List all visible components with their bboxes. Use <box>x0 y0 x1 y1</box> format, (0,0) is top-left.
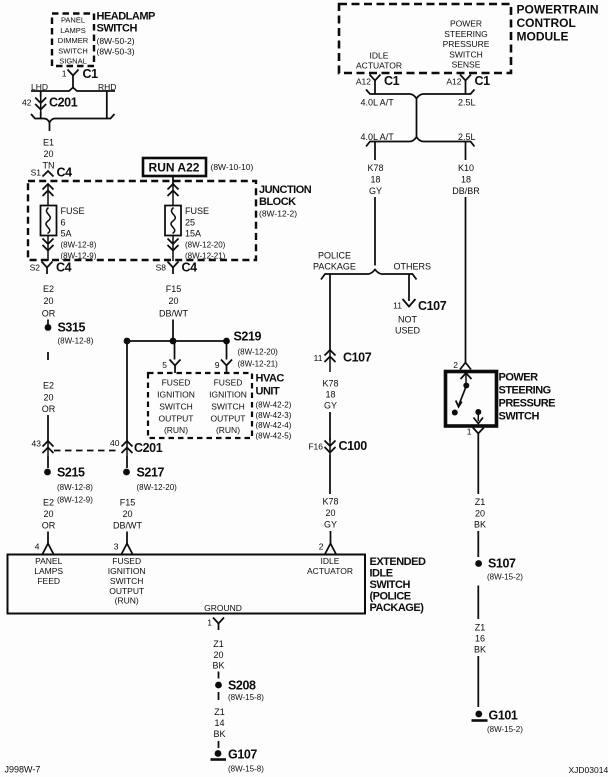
junction dot left <box>124 338 131 345</box>
connector C4 (S1) <box>43 171 54 177</box>
splice S219 <box>223 330 278 369</box>
svg-text:NOT: NOT <box>398 315 418 325</box>
svg-text:20: 20 <box>213 650 223 660</box>
svg-text:POLICE: POLICE <box>318 251 351 261</box>
connector C107 (others, not used) arrow <box>393 299 447 313</box>
svg-text:42: 42 <box>22 98 32 108</box>
fuse 25 <box>165 206 181 236</box>
wire right branch stub <box>465 142 467 161</box>
PCM power steering pressure switch sense label <box>443 19 490 70</box>
svg-text:F16: F16 <box>308 442 323 452</box>
svg-text:C107: C107 <box>418 299 447 313</box>
wire K10 down to PSP switch <box>465 197 467 362</box>
svg-text:PRESSURE: PRESSURE <box>499 398 556 410</box>
wire RUN A22 to fuse 25 <box>172 176 174 184</box>
headlamp switch title <box>97 11 155 57</box>
svg-text:20: 20 <box>43 296 53 306</box>
label fused ignition switch output run <box>108 556 146 606</box>
wire merged center <box>416 99 418 138</box>
PSP inner entry chevron <box>461 373 472 379</box>
terminal into box pin 3 <box>122 544 133 555</box>
svg-text:SWITCH: SWITCH <box>58 46 88 55</box>
wire GY to C100 <box>329 412 331 441</box>
svg-text:EXTENDED: EXTENDED <box>370 556 426 568</box>
svg-text:1: 1 <box>207 618 212 628</box>
wire below S107 <box>477 586 479 620</box>
wire Z1 14 BK label <box>213 707 225 739</box>
svg-text:DIMMER: DIMMER <box>58 36 89 45</box>
svg-text:DB/WT: DB/WT <box>159 309 188 319</box>
junction block title <box>259 184 312 219</box>
svg-text:(8W-15-2): (8W-15-2) <box>487 725 523 734</box>
terminal into box pin 4 <box>43 544 54 555</box>
svg-text:(8W-15-2): (8W-15-2) <box>487 573 523 582</box>
wire police branch <box>329 274 331 350</box>
svg-text:DB/WT: DB/WT <box>113 521 142 531</box>
svg-text:GY: GY <box>324 520 337 530</box>
fuse 25 value label <box>185 206 226 261</box>
connector C4 (S8) <box>168 261 198 275</box>
svg-text:25: 25 <box>185 218 195 228</box>
splice S107 <box>475 557 523 582</box>
svg-text:20: 20 <box>43 509 53 519</box>
headlamp switch dashed box <box>52 14 94 67</box>
svg-text:(8W-15-8): (8W-15-8) <box>228 765 264 774</box>
svg-text:18: 18 <box>461 175 471 185</box>
svg-text:(8W-12-8): (8W-12-8) <box>61 241 97 250</box>
wire left branch stub <box>374 142 376 161</box>
power steering pressure switch title <box>499 372 556 423</box>
svg-text:2: 2 <box>319 542 324 552</box>
wire K10 18 DB/BR label <box>452 163 480 196</box>
svg-text:PANEL: PANEL <box>61 16 85 25</box>
svg-text:G101: G101 <box>489 709 518 723</box>
svg-text:K78: K78 <box>367 163 383 173</box>
wire RHD branch <box>106 91 108 119</box>
svg-text:MODULE: MODULE <box>517 30 569 44</box>
svg-text:3: 3 <box>114 542 119 552</box>
svg-text:15A: 15A <box>185 229 201 239</box>
svg-text:USED: USED <box>395 326 421 336</box>
svg-text:GROUND: GROUND <box>204 603 242 613</box>
svg-text:Z1: Z1 <box>213 639 224 649</box>
splice S315 <box>45 321 94 346</box>
junction dot middle <box>170 338 177 345</box>
svg-text:C201: C201 <box>49 96 78 110</box>
PCM idle actuator label <box>356 50 402 70</box>
wire F15 20 DB/WT label (2) <box>113 498 142 531</box>
svg-text:(RUN): (RUN) <box>164 425 188 435</box>
svg-text:FUSE: FUSE <box>185 206 209 216</box>
connector terminal below fuse 6 <box>43 236 54 262</box>
svg-text:POWER: POWER <box>499 372 539 384</box>
svg-text:C4: C4 <box>56 261 72 275</box>
split brace PCM <box>366 137 475 147</box>
HVAC left column label <box>157 378 195 436</box>
svg-text:9: 9 <box>215 360 220 370</box>
svg-text:PRESSURE: PRESSURE <box>443 39 490 49</box>
svg-text:(8W-12-20): (8W-12-20) <box>137 483 178 492</box>
extended idle switch title <box>370 556 426 614</box>
svg-text:S2: S2 <box>30 263 41 273</box>
svg-text:BK: BK <box>212 661 224 671</box>
svg-text:5: 5 <box>162 360 167 370</box>
svg-text:(8W-42-4): (8W-42-4) <box>256 421 292 430</box>
wire stub below C107 <box>329 366 331 372</box>
svg-text:C1: C1 <box>475 74 491 88</box>
connector pin 5 HVAC <box>170 360 181 374</box>
svg-text:20: 20 <box>325 508 335 518</box>
svg-text:IGNITION: IGNITION <box>157 390 195 400</box>
svg-text:20: 20 <box>475 509 485 519</box>
svg-text:JUNCTION: JUNCTION <box>259 184 312 196</box>
svg-text:C4: C4 <box>57 166 73 180</box>
svg-text:2: 2 <box>453 360 458 370</box>
split brace police/others <box>321 270 417 280</box>
svg-text:G107: G107 <box>228 748 257 762</box>
svg-text:SENSE: SENSE <box>452 60 481 70</box>
wire stub right <box>465 87 467 94</box>
svg-text:A12: A12 <box>446 77 461 87</box>
svg-text:(8W-12-8): (8W-12-8) <box>58 337 94 346</box>
wire OR to C201 <box>47 415 49 441</box>
svg-text:C1: C1 <box>384 74 400 88</box>
wire Z1 20 BK label (right) <box>474 497 486 530</box>
connector C201 (40) <box>122 441 163 456</box>
svg-text:5A: 5A <box>61 229 72 239</box>
splice S217 <box>123 466 177 493</box>
merge brace <box>31 114 115 123</box>
power steering pressure switch box <box>446 372 497 427</box>
label panel lamps feed <box>34 556 63 586</box>
label NOT USED <box>395 315 421 336</box>
wire E2 20 OR label (2) <box>42 381 56 415</box>
svg-text:16: 16 <box>475 634 485 644</box>
connector C1 <box>68 70 79 82</box>
connector C1 (PCM right) <box>460 74 490 88</box>
svg-text:Z1: Z1 <box>475 623 486 633</box>
svg-text:IGNITION: IGNITION <box>209 390 247 400</box>
connector ground pin 1 <box>213 618 224 631</box>
wire C100 down <box>329 455 331 494</box>
svg-text:A12: A12 <box>356 77 371 87</box>
svg-text:1: 1 <box>467 427 472 437</box>
wire LHD to brace <box>40 112 42 119</box>
svg-text:CONTROL: CONTROL <box>517 16 576 30</box>
svg-text:STEERING: STEERING <box>444 29 487 39</box>
svg-text:K78: K78 <box>322 379 338 389</box>
label idle actuator <box>307 556 353 576</box>
ground G107 <box>211 748 265 774</box>
wire to G101 <box>477 656 479 707</box>
svg-text:11: 11 <box>393 301 402 311</box>
connector C1 (PCM left) <box>370 74 400 88</box>
svg-text:S208: S208 <box>228 679 256 693</box>
powertrain control module title <box>517 3 599 44</box>
svg-text:C107: C107 <box>343 351 372 365</box>
wire branch line with center peak <box>31 88 115 92</box>
wire PSP down <box>477 438 479 494</box>
svg-text:SWITCH: SWITCH <box>370 579 411 591</box>
wire F15 down to splice bus <box>172 320 174 342</box>
svg-text:OR: OR <box>42 521 56 531</box>
svg-text:(8W-50-3): (8W-50-3) <box>97 47 135 57</box>
PSP contact dot output <box>475 409 481 415</box>
connector terminal above fuse 6 <box>43 184 54 206</box>
svg-text:SWITCH: SWITCH <box>449 49 483 59</box>
svg-text:OTHERS: OTHERS <box>394 261 432 271</box>
svg-text:SWITCH: SWITCH <box>159 402 193 412</box>
svg-text:S107: S107 <box>488 557 516 571</box>
wire to S215 <box>47 456 49 468</box>
extended idle switch box <box>8 555 366 614</box>
svg-text:18: 18 <box>325 390 335 400</box>
wire C1 to branch <box>72 81 74 88</box>
connector C201 (43) <box>43 441 54 456</box>
svg-text:E2: E2 <box>43 284 54 294</box>
wire E2 20 OR label (3) <box>42 498 56 531</box>
svg-text:(8W-12-21): (8W-12-21) <box>185 252 226 261</box>
wire stub left <box>374 87 376 94</box>
HVAC unit title <box>256 373 292 441</box>
svg-text:BK: BK <box>213 729 225 739</box>
svg-text:20: 20 <box>168 296 178 306</box>
svg-text:(8W-12-20): (8W-12-20) <box>238 348 279 357</box>
headlamp switch signal label <box>58 16 89 66</box>
wire dash to G107 <box>218 741 220 748</box>
svg-text:OUTPUT: OUTPUT <box>211 414 246 424</box>
svg-text:STEERING: STEERING <box>499 385 551 397</box>
svg-text:SWITCH: SWITCH <box>499 411 540 423</box>
wire bus down to HVAC left <box>126 341 128 441</box>
HVAC right column label <box>209 378 247 436</box>
PSP inner wire stub <box>465 372 467 383</box>
svg-text:4.0L A/T: 4.0L A/T <box>361 98 395 108</box>
svg-text:SWITCH: SWITCH <box>211 402 245 412</box>
wire to pin 2 <box>330 531 332 544</box>
svg-text:K10: K10 <box>458 163 474 173</box>
svg-text:S215: S215 <box>57 466 85 480</box>
svg-text:LAMPS: LAMPS <box>34 566 63 576</box>
wire to S107 <box>477 531 479 557</box>
fuse 6 <box>41 206 57 236</box>
svg-text:20: 20 <box>43 149 53 159</box>
svg-text:SWITCH: SWITCH <box>97 23 138 35</box>
HVAC unit dashed box <box>148 373 252 438</box>
svg-text:BK: BK <box>474 520 486 530</box>
wire dashed C201 tie line <box>54 450 117 452</box>
svg-text:SIGNAL: SIGNAL <box>59 57 87 66</box>
svg-text:FUSED: FUSED <box>214 378 243 388</box>
svg-text:43: 43 <box>32 439 42 449</box>
connector PSP pin 1 <box>473 428 484 439</box>
wire to S315 <box>47 320 49 326</box>
svg-text:(RUN): (RUN) <box>216 425 240 435</box>
svg-text:(8W-12-21): (8W-12-21) <box>238 360 279 369</box>
svg-text:(8W-42-2): (8W-42-2) <box>256 401 292 410</box>
splice S215 <box>44 466 93 505</box>
svg-text:BK: BK <box>474 645 486 655</box>
svg-text:(8W-12-9): (8W-12-9) <box>61 252 97 261</box>
svg-text:40: 40 <box>110 438 120 448</box>
svg-text:6: 6 <box>61 218 66 228</box>
svg-text:(8W-50-2): (8W-50-2) <box>97 36 135 46</box>
svg-text:4: 4 <box>35 542 40 552</box>
svg-text:LAMPS: LAMPS <box>60 26 85 35</box>
svg-text:(8W-12-9): (8W-12-9) <box>57 496 93 505</box>
svg-text:(8W-15-8): (8W-15-8) <box>228 693 264 702</box>
svg-text:HEADLAMP: HEADLAMP <box>97 11 155 23</box>
connector C100 <box>325 438 368 455</box>
svg-text:E2: E2 <box>43 381 54 391</box>
wire Z1 16 BK label <box>474 623 486 655</box>
svg-text:GY: GY <box>369 186 382 196</box>
wire E1 20 TN label <box>43 138 55 171</box>
wire to pin 3 <box>126 532 128 544</box>
svg-text:(POLICE: (POLICE <box>370 591 411 603</box>
connector terminal above fuse 25 <box>168 184 179 206</box>
svg-text:POWER: POWER <box>450 19 482 29</box>
svg-text:20: 20 <box>122 509 132 519</box>
merge brace PCM <box>366 90 475 99</box>
ground G101 <box>472 709 524 735</box>
svg-text:F15: F15 <box>120 498 136 508</box>
svg-text:S219: S219 <box>234 330 262 344</box>
svg-text:(8W-42-5): (8W-42-5) <box>256 431 292 440</box>
wire right dot to pin 9 <box>226 341 228 360</box>
wire dash below S208 <box>218 692 220 700</box>
svg-text:XJD03014: XJD03014 <box>569 765 608 775</box>
powertrain control module dashed box <box>339 4 511 73</box>
wire others branch <box>408 274 410 301</box>
svg-text:1: 1 <box>62 69 67 79</box>
svg-text:PACKAGE): PACKAGE) <box>370 602 425 614</box>
svg-text:(RUN): (RUN) <box>115 596 139 606</box>
svg-text:(8W-12-2): (8W-12-2) <box>259 209 297 219</box>
svg-text:S217: S217 <box>137 466 165 480</box>
svg-text:E2: E2 <box>43 498 54 508</box>
svg-text:OUTPUT: OUTPUT <box>159 414 194 424</box>
svg-text:C4: C4 <box>182 261 198 275</box>
svg-text:UNIT: UNIT <box>256 386 280 398</box>
svg-text:2.5L: 2.5L <box>458 98 476 108</box>
svg-text:E1: E1 <box>43 138 54 148</box>
svg-text:(8W-10-10): (8W-10-10) <box>211 162 254 172</box>
wire K78 18 GY label (police) <box>322 379 338 411</box>
PSP contact dot top <box>463 383 469 389</box>
PSP output arrow <box>474 414 484 424</box>
svg-text:RUN A22: RUN A22 <box>149 161 200 175</box>
svg-text:IDLE: IDLE <box>370 50 389 60</box>
PSP switch blade with arrow <box>456 388 466 407</box>
svg-text:11: 11 <box>314 353 323 363</box>
svg-text:2.5L: 2.5L <box>458 132 476 142</box>
svg-text:Z1: Z1 <box>214 707 225 717</box>
svg-text:S1: S1 <box>31 168 42 178</box>
wire K78 down to police split <box>374 197 376 266</box>
terminal into PSP pin 2 <box>460 363 471 370</box>
svg-text:FUSED: FUSED <box>112 556 141 566</box>
terminal into box pin 2 <box>325 544 336 555</box>
svg-text:ACTUATOR: ACTUATOR <box>356 61 402 71</box>
svg-text:J998W-7: J998W-7 <box>5 765 41 775</box>
svg-text:OR: OR <box>42 404 56 414</box>
svg-text:POWERTRAIN: POWERTRAIN <box>517 3 599 17</box>
svg-text:(8W-12-8): (8W-12-8) <box>57 483 93 492</box>
wire brace to E1 <box>49 123 51 132</box>
svg-text:PANEL: PANEL <box>35 556 63 566</box>
wire dash to S208 <box>218 672 220 679</box>
wire dash below S315 <box>47 352 49 360</box>
wire splice bus horizontal <box>127 340 227 342</box>
connector terminal below fuse 25 <box>168 236 179 262</box>
svg-text:FUSE: FUSE <box>61 206 85 216</box>
svg-text:GY: GY <box>324 401 337 411</box>
svg-text:S315: S315 <box>58 321 86 335</box>
RUN A22 box <box>143 158 253 176</box>
svg-text:S8: S8 <box>156 263 167 273</box>
svg-text:HVAC: HVAC <box>256 373 285 385</box>
svg-text:C100: C100 <box>339 439 368 453</box>
connector C107 (police) <box>325 350 372 366</box>
PSP contact dot bottom left <box>452 410 458 416</box>
wire middle dot to pin 5 <box>174 341 176 360</box>
label POLICE PACKAGE <box>313 251 356 272</box>
svg-text:TN: TN <box>43 161 55 171</box>
fuse 6 value label <box>61 206 97 261</box>
svg-text:(8W-12-20): (8W-12-20) <box>185 241 226 250</box>
splice S208 <box>215 679 264 703</box>
wire to pin 4 <box>47 532 49 544</box>
svg-text:F15: F15 <box>166 284 182 294</box>
wire K78 20 GY label (lower) <box>322 497 338 530</box>
svg-text:Z1: Z1 <box>475 497 486 507</box>
connector pin 9 HVAC <box>221 360 232 374</box>
svg-text:PACKAGE: PACKAGE <box>313 261 356 271</box>
svg-text:(8W-42-3): (8W-42-3) <box>256 411 292 420</box>
wire F15 20 DB/WT label (1) <box>159 284 188 319</box>
svg-text:ACTUATOR: ACTUATOR <box>307 566 353 576</box>
svg-text:FEED: FEED <box>37 576 60 586</box>
svg-text:20: 20 <box>43 393 53 403</box>
svg-text:14: 14 <box>214 718 224 728</box>
wire Z1 20 BK label (ground) <box>212 639 224 671</box>
svg-text:C1: C1 <box>83 67 99 81</box>
svg-text:SWITCH: SWITCH <box>110 576 144 586</box>
wire K78 18 GY label <box>367 163 383 196</box>
svg-text:K78: K78 <box>322 497 338 507</box>
svg-text:C201: C201 <box>134 441 163 455</box>
connector C4 (S2) <box>42 261 72 275</box>
wire LHD branch <box>40 91 42 98</box>
svg-text:18: 18 <box>370 175 380 185</box>
svg-text:BLOCK: BLOCK <box>259 196 296 208</box>
svg-text:IDLE: IDLE <box>321 556 340 566</box>
junction block dashed box <box>28 181 256 260</box>
svg-text:FUSED: FUSED <box>162 378 191 388</box>
svg-text:OUTPUT: OUTPUT <box>109 586 144 596</box>
svg-text:4.0L A/T: 4.0L A/T <box>361 132 395 142</box>
svg-text:DB/BR: DB/BR <box>452 186 480 196</box>
svg-text:IDLE: IDLE <box>370 568 393 580</box>
svg-text:OR: OR <box>42 309 56 319</box>
connector C201 (42) <box>35 96 78 113</box>
wire to S217 <box>126 456 128 468</box>
svg-text:IGNITION: IGNITION <box>108 566 146 576</box>
wire E2 20 OR label (1) <box>42 284 56 319</box>
